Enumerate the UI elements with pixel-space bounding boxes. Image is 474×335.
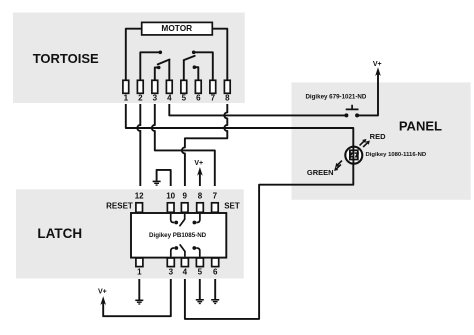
wire: pushbutton right contact to V+ (359, 72, 378, 116)
latch internal pole stem pin 9 (184, 214, 186, 219)
wire: LATCH pin 10 up and left to ground (157, 170, 171, 186)
svg-text:MOTOR: MOTOR (161, 23, 192, 33)
LATCH pin 7 terminal (212, 192, 219, 213)
TORTOISE pin 6 terminal (195, 80, 201, 102)
wire: TORTOISE pin 7 to switch contact (195, 52, 213, 80)
wire: TORTOISE pin 6 to switch contact (195, 67, 198, 80)
wire: TORTOISE pin 3 down, right, down to LATCH pin 7 (hops over LED wire) (152, 104, 215, 186)
wire: V+ to LATCH pin 8 (199, 171, 201, 186)
latch internal contact from pin 5 (196, 248, 200, 257)
LED D1 internal anti-parallel diodes (349, 147, 359, 164)
latch internal pole stem pin 4 (184, 251, 186, 257)
svg-text:Digikey PB1085-ND: Digikey PB1085-ND (149, 232, 207, 239)
svg-text:V+: V+ (194, 160, 203, 167)
wire: TORTOISE pin 1 down and right to panel LED anode (126, 104, 353, 147)
svg-text:7: 7 (213, 192, 218, 201)
TORTOISE pin 4 terminal (166, 80, 172, 102)
LATCH pin 12 terminal (135, 192, 144, 213)
wire: TORTOISE pin 4 down and right to pushbutton (169, 104, 344, 115)
wire: LATCH pin 1 to ground (138, 279, 140, 300)
TORTOISE pin 3 terminal (152, 80, 158, 102)
latch internal contact from pin 10 (171, 214, 175, 223)
svg-text:SET: SET (224, 202, 240, 211)
svg-text:LATCH: LATCH (37, 226, 82, 241)
wire: LATCH pin 3 down and left to V+ (103, 279, 171, 316)
latch internal contact dot (pin 3 side) (174, 246, 178, 250)
wire: TORTOISE pin 3 to switch contact (155, 68, 158, 81)
TORTOISE pin 1 terminal (123, 80, 129, 102)
wire: TORTOISE pin 4 stem (168, 60, 170, 81)
contact dot on pin 2 wire (159, 51, 163, 55)
ground symbol at LATCH pin 5 (196, 300, 204, 304)
svg-text:V+: V+ (373, 61, 382, 68)
LATCH pin 8 terminal (197, 192, 204, 213)
ground symbol at LATCH pin 10 (153, 181, 161, 185)
wire: LATCH pin 5 to ground (199, 279, 201, 300)
svg-text:TORTOISE: TORTOISE (33, 51, 99, 66)
svg-text:Digikey 1080-1116-ND: Digikey 1080-1116-ND (366, 152, 427, 158)
svg-text:8: 8 (198, 192, 203, 201)
svg-text:2: 2 (138, 93, 143, 102)
switch arm SW-A (pin 4 common, thrown toward pin 3) (158, 60, 170, 65)
svg-text:1: 1 (137, 268, 142, 277)
svg-text:4: 4 (183, 268, 188, 277)
latch IC U1 body (131, 213, 226, 258)
wire: LED cathode down, left, down, left, up to LATCH pin 4 (185, 164, 353, 319)
TORTOISE pin 8 terminal (224, 80, 230, 102)
wire: TORTOISE pin 2 down to LATCH pin 12 (hops over LED wire) (137, 104, 140, 186)
LATCH pin 4 terminal (181, 258, 188, 277)
wire: TORTOISE pin 2 to switch contact (140, 52, 159, 80)
svg-text:9: 9 (182, 192, 187, 201)
LED red-side emission arrows (360, 139, 370, 147)
pushbutton S1 right contact dot (355, 113, 359, 117)
latch internal contact dot (pin 8 side) (193, 221, 197, 225)
contact dot on pin 6 wire (193, 65, 197, 69)
ground symbol at LATCH pin 6 (211, 300, 219, 304)
LATCH enclosure box (16, 189, 244, 278)
svg-text:5: 5 (182, 93, 187, 102)
motor M1 (MOTOR box inside TORTOISE) (142, 22, 213, 35)
svg-text:V+: V+ (98, 289, 107, 296)
wire: TORTOISE pin 8 to MOTOR right (212, 29, 227, 81)
svg-text:1: 1 (124, 93, 129, 102)
svg-text:GREEN: GREEN (307, 168, 334, 177)
contact dot on pin 3 wire (157, 66, 161, 70)
svg-text:3: 3 (169, 268, 174, 277)
LATCH pin 3 terminal (167, 258, 174, 277)
switch arm SW-B (pin 5 common, thrown toward pin 7) (184, 56, 195, 60)
wire: TORTOISE pin 5 stem (183, 60, 185, 80)
svg-text:4: 4 (167, 93, 172, 102)
bicolor LED D1 circle (345, 147, 362, 164)
svg-text:3: 3 (153, 93, 158, 102)
pushbutton S1 actuator (346, 105, 359, 110)
LATCH pin 9 terminal (181, 192, 188, 213)
contact dot on pin 7 wire (192, 51, 196, 55)
TORTOISE pin 2 terminal (137, 80, 143, 102)
latch internal switch arm (pin 4 common) (180, 245, 185, 252)
svg-text:RESET: RESET (106, 202, 133, 211)
V+ arrowhead (latch pin 8 supply) (197, 167, 203, 176)
svg-text:PANEL: PANEL (399, 118, 442, 133)
latch internal contact dot (pin 10 side) (174, 221, 178, 225)
PANEL enclosure box (292, 82, 471, 199)
V+ arrowhead (latch pin 3 supply) (100, 296, 106, 305)
LED green-side emission arrows (334, 161, 342, 171)
svg-text:6: 6 (213, 268, 218, 277)
wire: TORTOISE pin 8 down (hops pushbutton and LED wires), left, down to LATCH pin 9 (182, 104, 227, 186)
latch internal contact dot (pin 5 side) (192, 246, 196, 250)
wire: TORTOISE pin 1 to MOTOR left (126, 29, 142, 81)
latch internal contact from pin 8 (196, 214, 200, 223)
svg-text:10: 10 (166, 192, 175, 201)
latch internal switch arm (pin 9 common) (180, 219, 185, 226)
svg-text:7: 7 (211, 93, 216, 102)
svg-text:8: 8 (225, 93, 230, 102)
wire: LATCH pin 6 to ground (214, 279, 216, 300)
svg-text:6: 6 (196, 93, 201, 102)
V+ arrowhead (panel supply) (375, 67, 381, 76)
svg-text:12: 12 (135, 192, 144, 201)
svg-text:RED: RED (370, 132, 386, 141)
TORTOISE enclosure box (13, 13, 245, 104)
TORTOISE pin 7 terminal (210, 80, 216, 102)
svg-text:Digikey 679-1021-ND: Digikey 679-1021-ND (305, 94, 366, 101)
TORTOISE pin 5 terminal (181, 80, 187, 102)
LATCH pin 1 terminal (136, 258, 143, 277)
LATCH pin 5 terminal (196, 258, 203, 277)
pushbutton S1 left contact dot (344, 113, 348, 117)
svg-text:5: 5 (198, 268, 203, 277)
latch internal contact from pin 3 (171, 248, 175, 257)
ground symbol at LATCH pin 1 (135, 300, 143, 304)
LATCH pin 6 terminal (212, 258, 219, 277)
LATCH pin 10 terminal (166, 192, 175, 213)
